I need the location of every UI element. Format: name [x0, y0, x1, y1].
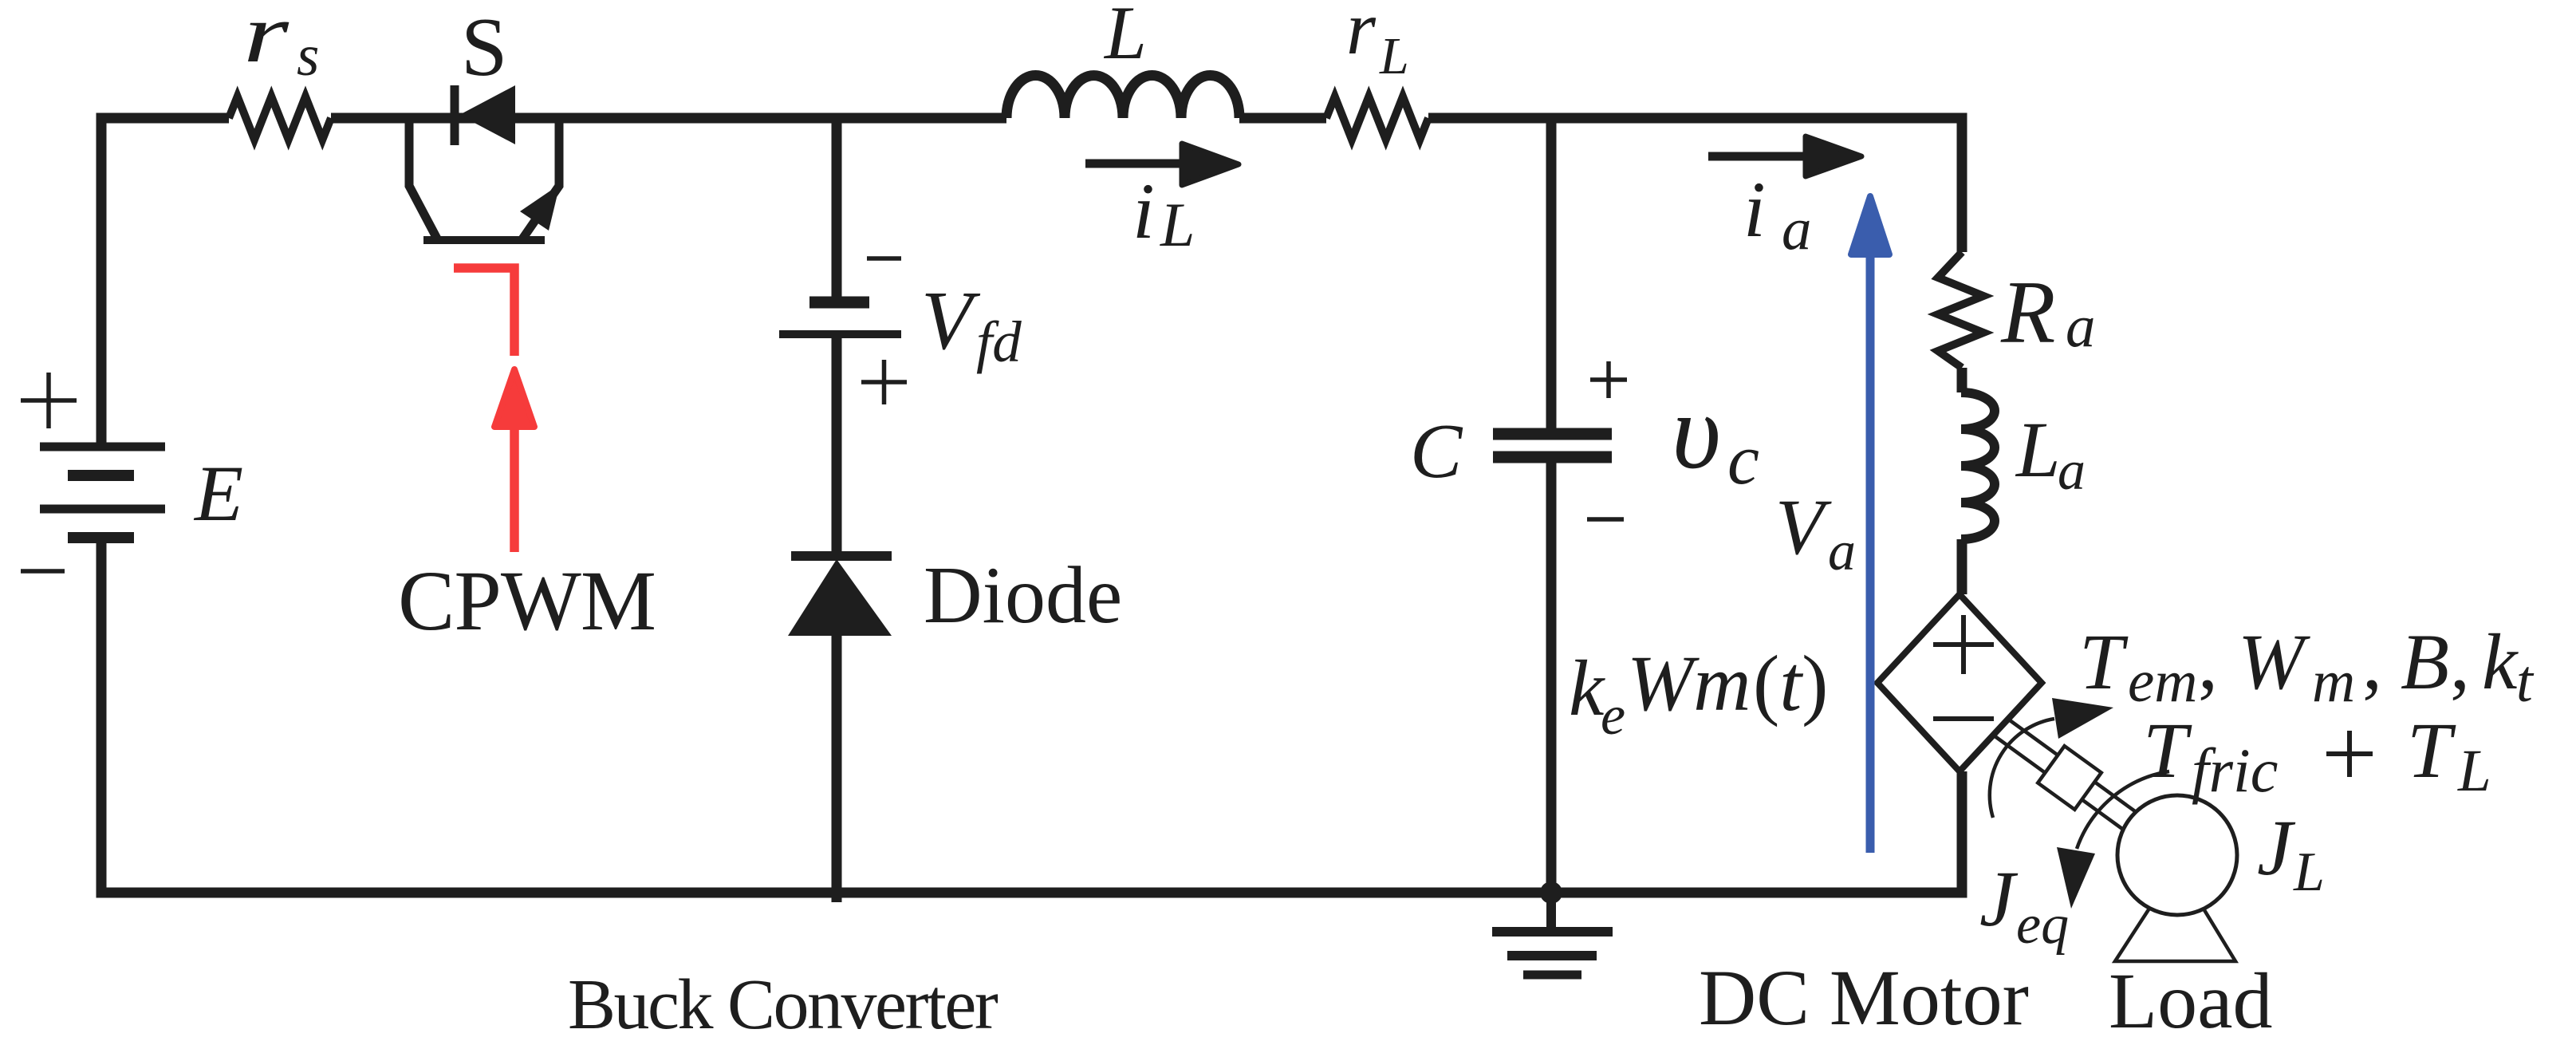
svg-text:i: i	[1132, 167, 1155, 255]
svg-text:CPWM: CPWM	[398, 554, 656, 649]
svg-text:Wm: Wm	[1627, 639, 1751, 728]
svg-text:a: a	[1782, 196, 1812, 262]
svg-text:V: V	[921, 274, 981, 367]
svg-text:e: e	[1601, 685, 1625, 747]
svg-text:Buck Converter: Buck Converter	[568, 965, 998, 1044]
svg-text:L: L	[2293, 842, 2325, 903]
svg-text:a: a	[2066, 294, 2096, 360]
svg-text:L: L	[1379, 27, 1409, 85]
svg-text:E: E	[193, 449, 243, 538]
svg-text:,: ,	[2198, 617, 2218, 706]
svg-text:k: k	[2482, 617, 2519, 706]
svg-text:T: T	[2143, 706, 2192, 795]
svg-text:a: a	[1828, 521, 1856, 582]
svg-text:V: V	[1775, 483, 1832, 571]
svg-text:eq: eq	[2016, 894, 2069, 956]
svg-text:T: T	[2407, 706, 2456, 795]
svg-text:L: L	[2015, 405, 2061, 494]
svg-text:t: t	[2516, 649, 2535, 715]
svg-text:L: L	[1160, 190, 1195, 259]
svg-text:C: C	[1410, 408, 1463, 495]
svg-text:R: R	[2000, 263, 2055, 362]
svg-text:W: W	[2238, 617, 2310, 706]
svg-text:m: m	[2312, 649, 2355, 715]
svg-text:L: L	[2457, 738, 2491, 804]
svg-text:T: T	[2079, 617, 2129, 706]
svg-text:B: B	[2401, 617, 2449, 706]
svg-text:c: c	[1727, 420, 1759, 499]
svg-text:fd: fd	[976, 310, 1022, 374]
svg-text:υ: υ	[1672, 373, 1721, 491]
svg-text:J: J	[1979, 854, 2019, 943]
svg-text:S: S	[461, 0, 507, 93]
svg-text:Diode: Diode	[924, 550, 1122, 641]
svg-text:J: J	[2257, 803, 2296, 892]
svg-text:r: r	[243, 0, 290, 80]
svg-text:s: s	[297, 23, 319, 88]
svg-text:em: em	[2128, 649, 2197, 715]
svg-text:Load: Load	[2109, 956, 2272, 1045]
svg-text:r: r	[1346, 0, 1377, 70]
svg-text:a: a	[2058, 440, 2086, 502]
svg-text:(t): (t)	[1753, 639, 1828, 728]
svg-text:fric: fric	[2192, 735, 2278, 805]
svg-text:DC Motor: DC Motor	[1699, 953, 2029, 1042]
svg-text:,: ,	[2362, 617, 2382, 706]
svg-text:,: ,	[2450, 617, 2470, 706]
svg-text:i: i	[1743, 165, 1766, 254]
svg-text:L: L	[1103, 0, 1147, 75]
